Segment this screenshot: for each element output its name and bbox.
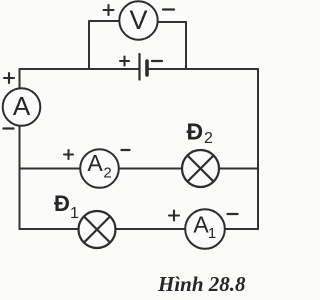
svg-text:1: 1 [208, 225, 216, 242]
battery cell [140, 54, 148, 80]
wire top main left of battery [20, 68, 139, 70]
wire left vertical below ammeter A [19, 126, 21, 230]
svg-text:1: 1 [70, 205, 79, 222]
svg-text:A: A [87, 150, 103, 176]
label D1 [54, 191, 79, 222]
svg-text:2: 2 [204, 130, 213, 147]
wire bottom between lamp D1 and A1 [116, 228, 186, 230]
svg-text:2: 2 [103, 165, 111, 182]
wire bottom left of lamp D1 [20, 228, 80, 230]
label + of battery [120, 57, 129, 66]
wire middle branch between A2 and lamp D2 [119, 168, 183, 170]
wire voltmeter branch left vertical [88, 21, 90, 69]
wire voltmeter branch right vertical [185, 22, 187, 69]
label - of ammeter A [4, 127, 14, 129]
ammeter A1 [185, 209, 225, 249]
lamp D1 [79, 211, 116, 248]
wire bottom right of A1 [226, 228, 259, 230]
label D2 [187, 119, 214, 148]
wire left vertical above ammeter A [19, 69, 21, 89]
voltmeter V [119, 1, 157, 39]
lamp D2 [182, 150, 219, 187]
svg-text:Đ: Đ [54, 191, 70, 216]
wire top main right of battery [148, 68, 258, 70]
wire middle branch right of lamp D2 [219, 168, 258, 170]
svg-text:V: V [129, 5, 147, 35]
wire middle branch left of A2 [20, 168, 81, 170]
ammeter A2 [80, 149, 119, 188]
label + of voltmeter [104, 5, 114, 15]
label - of voltmeter [163, 8, 174, 10]
wire voltmeter branch right horizontal [158, 21, 187, 23]
label - of A2 [122, 149, 130, 151]
label + of A1 [169, 211, 179, 221]
wire right vertical [257, 69, 259, 229]
svg-text:A: A [13, 91, 31, 121]
label - of battery [152, 60, 162, 62]
svg-text:Đ: Đ [187, 119, 204, 145]
svg-text:Hình 28.8: Hình 28.8 [157, 272, 246, 296]
label + of ammeter A [4, 73, 14, 83]
ammeter A [3, 88, 41, 126]
label - of A1 [228, 213, 238, 215]
label + of A2 [64, 150, 73, 159]
wire voltmeter branch left horizontal [89, 20, 120, 22]
